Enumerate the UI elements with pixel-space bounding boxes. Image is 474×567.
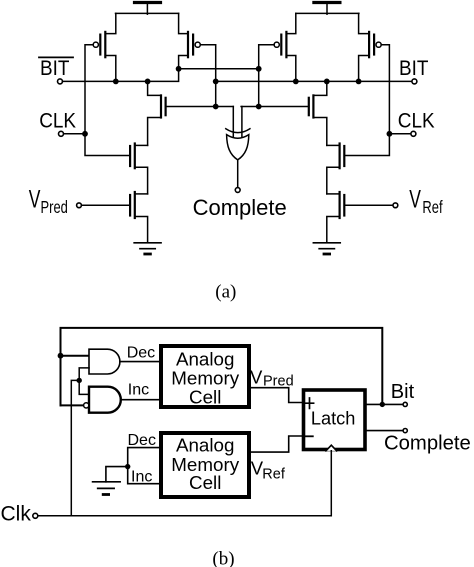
- node CLK junction left: [82, 131, 88, 137]
- label Dec 2: [128, 432, 156, 449]
- wire VDD rail right: [296, 12, 359, 14]
- wire input gate lead right: [344, 204, 393, 206]
- svg-text:Clk: Clk: [1, 503, 32, 526]
- terminal Complete: [235, 188, 240, 193]
- label CLK right: [398, 109, 435, 132]
- wire cell2 ground lead: [106, 467, 128, 482]
- wire gate net C right: [241, 106, 309, 108]
- label Clk: [1, 503, 32, 526]
- svg-text:CLK: CLK: [39, 109, 76, 132]
- wire XOR input right: [241, 107, 243, 137]
- wire Inc to cell1: [121, 399, 159, 401]
- node cross vert top dot right: [256, 104, 262, 110]
- svg-text:CLK: CLK: [398, 109, 435, 132]
- block Analog Memory Cell 1: [161, 346, 249, 407]
- nmos input left: [130, 192, 148, 243]
- svg-text:(b): (b): [212, 548, 234, 567]
- wire feedback top rail: [61, 328, 383, 406]
- xor gate U1: [226, 129, 250, 160]
- svg-text:BIT: BIT: [399, 57, 428, 80]
- node drain precharge left: [113, 79, 119, 85]
- wire Dec to cell1: [120, 361, 159, 363]
- nmos input right: [327, 192, 345, 243]
- label BITbar: [39, 57, 73, 80]
- label CLK left: [39, 109, 76, 132]
- wire gate net C left: [166, 106, 234, 108]
- label Complete b: [384, 432, 471, 454]
- label BIT right: [399, 57, 428, 80]
- node gates clk dot: [77, 378, 82, 383]
- block Analog Memory Cell 2: [161, 433, 249, 497]
- wire input gate lead left: [81, 204, 130, 206]
- svg-text:Cell: Cell: [189, 472, 221, 493]
- svg-text:BIT: BIT: [40, 57, 69, 80]
- caption (a): [215, 282, 236, 303]
- and gate Inc: [89, 387, 121, 413]
- nmos latch left: [148, 81, 166, 145]
- node cross vert C dot left: [213, 104, 219, 110]
- wire BIT rail right: [216, 80, 412, 82]
- terminal input left: [77, 203, 82, 208]
- label Bit: [391, 381, 415, 403]
- clock wedge latch: [326, 445, 337, 451]
- wire gate1 input top: [61, 355, 90, 357]
- wire Complete out b: [365, 430, 403, 432]
- node nmos drain dot right: [324, 79, 330, 85]
- label Complete a: [193, 195, 287, 220]
- terminal Clk: [33, 513, 38, 518]
- nmos clock right: [327, 144, 345, 194]
- svg-text:Complete: Complete: [384, 432, 471, 454]
- node Bit feedback dot: [380, 402, 385, 407]
- power VDD right: [314, 3, 340, 15]
- wire Complete lead: [237, 160, 239, 188]
- node feedback gate1 dot: [58, 353, 64, 359]
- wire CLK net right: [344, 45, 389, 156]
- wire cross-couple vertical left: [200, 45, 215, 107]
- wire VDD rail left: [116, 12, 179, 14]
- label Vpred b: [250, 366, 294, 389]
- node latch pmos drain dot right: [293, 79, 299, 85]
- wire Vpred net b: [249, 388, 302, 403]
- terminal input right: [393, 203, 398, 208]
- node cross vert top dot left: [213, 79, 219, 85]
- terminal Complete b: [403, 429, 407, 433]
- terminal Bit: [403, 402, 407, 406]
- wire BITbar rail left: [63, 69, 259, 82]
- svg-text:V: V: [409, 184, 421, 213]
- svg-text:V: V: [29, 184, 41, 213]
- svg-text:Inc: Inc: [128, 382, 149, 399]
- svg-text:Cell: Cell: [189, 386, 221, 407]
- wire CLK net left: [85, 45, 130, 156]
- ground left: [134, 243, 161, 254]
- terminal CLK right: [411, 131, 416, 136]
- svg-text:V: V: [250, 366, 263, 387]
- wire Clk net: [38, 451, 332, 516]
- pmos latch right: [274, 13, 296, 81]
- terminal BITbar left: [58, 79, 63, 84]
- svg-text:Inc: Inc: [131, 469, 152, 486]
- terminal CLK left: [59, 131, 64, 136]
- node wireA end dot: [176, 66, 262, 72]
- label Inc 1: [128, 382, 149, 399]
- wire Bit out: [365, 403, 403, 405]
- wire XOR input left: [232, 107, 234, 137]
- svg-text:Ref: Ref: [262, 467, 286, 483]
- label Inc 2: [131, 469, 152, 486]
- svg-text:Bit: Bit: [391, 381, 415, 403]
- wire Clk to gates: [71, 380, 79, 515]
- wire gates clk branch: [79, 368, 89, 395]
- svg-text:Dec: Dec: [127, 345, 155, 362]
- svg-text:Analog: Analog: [176, 348, 234, 369]
- and gate Dec: [89, 349, 120, 374]
- label Dec 1: [127, 345, 155, 362]
- ground right: [313, 243, 340, 254]
- wire cross-couple vertical right: [259, 45, 274, 107]
- ground b: [93, 482, 121, 495]
- wire cell2 dec inc tie: [128, 448, 159, 484]
- node nmos drain dot left: [145, 79, 151, 85]
- svg-text:Analog: Analog: [176, 435, 234, 456]
- svg-text:Complete: Complete: [193, 195, 287, 220]
- svg-text:(a): (a): [215, 282, 236, 303]
- block Latch: [304, 390, 366, 450]
- wire CLK terminal lead left: [63, 133, 85, 135]
- svg-text:Ref: Ref: [422, 198, 443, 218]
- label Vref b: [251, 457, 286, 482]
- nmos clock left: [130, 144, 148, 194]
- svg-text:Dec: Dec: [128, 432, 156, 449]
- node drain precharge right: [356, 79, 362, 85]
- caption (b): [212, 548, 234, 567]
- svg-text:Pred: Pred: [41, 198, 68, 218]
- pmos precharge left: [93, 13, 116, 81]
- bubble gate Inc input: [84, 403, 89, 408]
- pmos precharge right: [359, 13, 382, 81]
- wire gate2 bubble lead: [61, 404, 84, 406]
- wire CLK terminal lead right: [389, 133, 411, 135]
- pmos latch left: [179, 13, 201, 68]
- svg-text:Pred: Pred: [263, 374, 294, 390]
- svg-text:Latch: Latch: [311, 409, 356, 429]
- node CLK junction right: [387, 131, 393, 137]
- label Vref: [409, 184, 443, 217]
- node cell2 tie dot: [125, 464, 130, 469]
- terminal BIT right: [412, 79, 417, 84]
- label Vpred: [29, 184, 68, 217]
- wire Vref net b: [249, 436, 302, 452]
- nmos latch right: [309, 81, 327, 145]
- power VDD left: [135, 3, 161, 15]
